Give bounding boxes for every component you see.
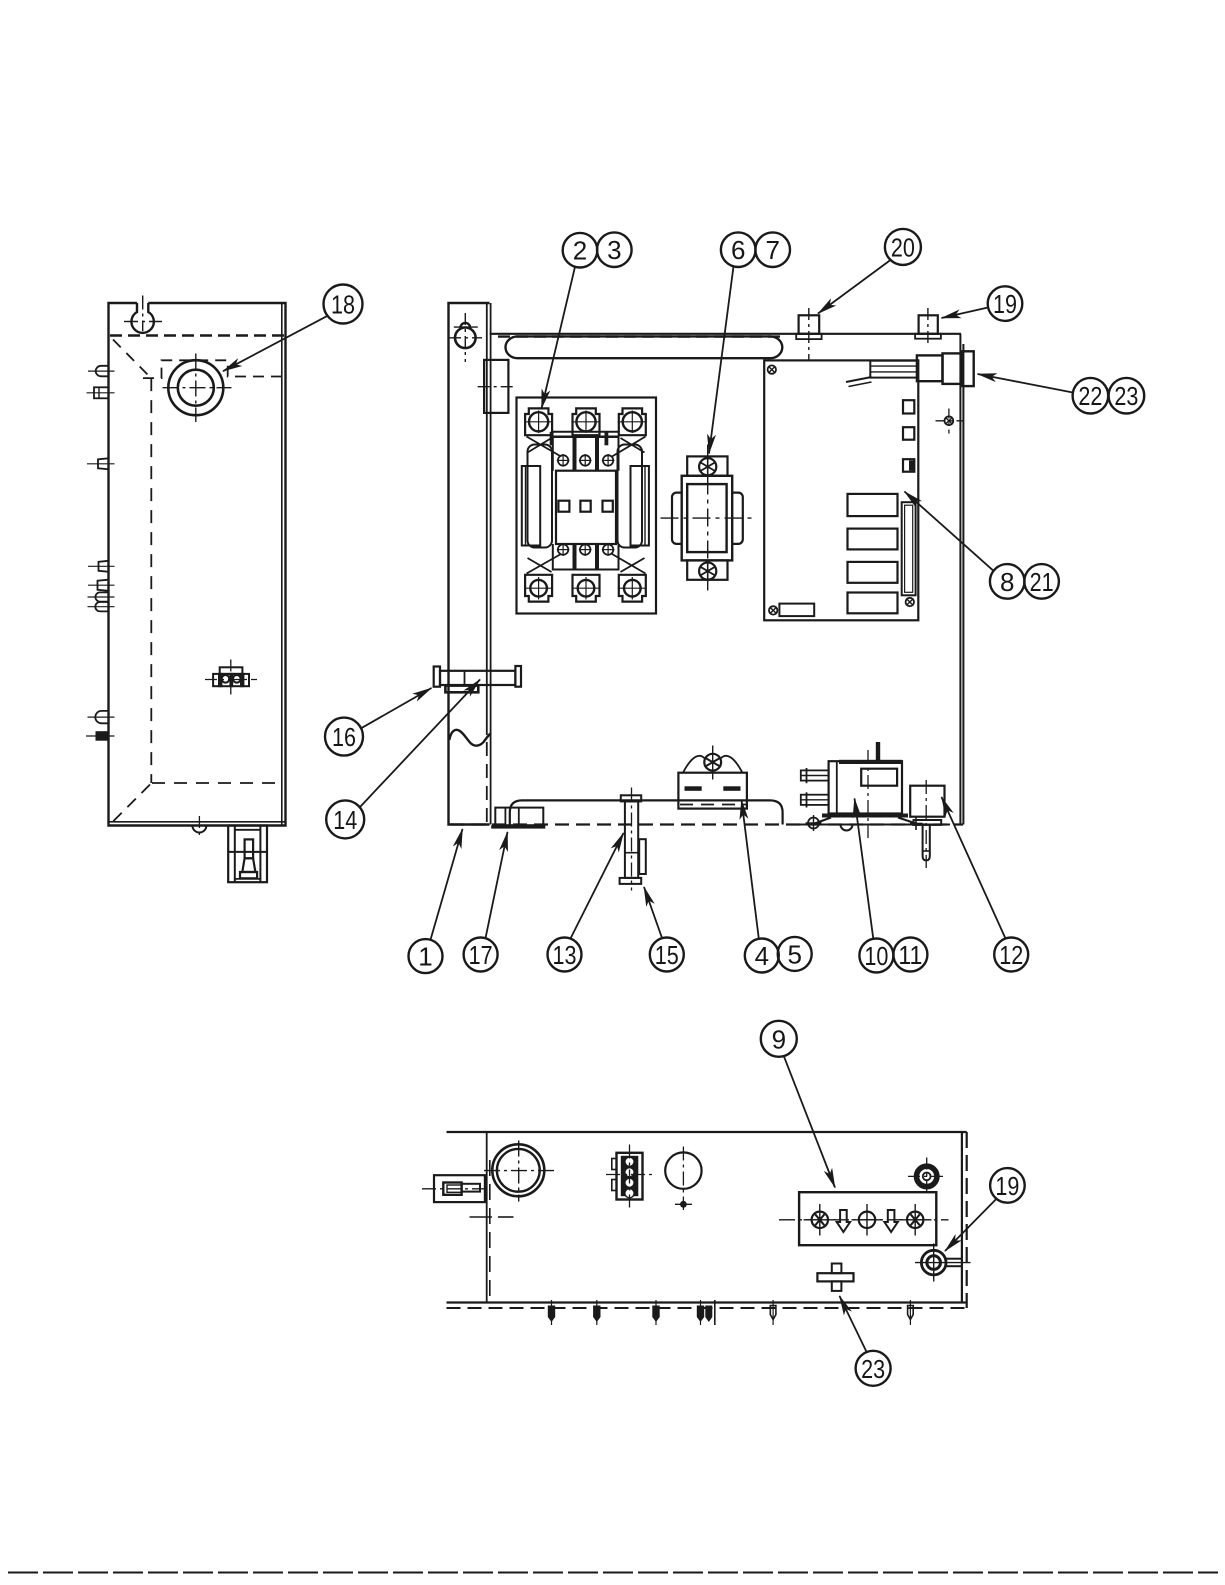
callout 2 [563, 233, 598, 268]
big hole circles [492, 1144, 544, 1196]
svg-text:15: 15 [655, 940, 679, 970]
transformer top tab [687, 456, 727, 475]
pcb relay 4 [848, 593, 898, 614]
bracket 9 [799, 1192, 936, 1245]
callout 9 [761, 1021, 797, 1057]
panel bottom hidden dashed [450, 823, 963, 825]
top diagonal wires [527, 437, 562, 457]
bracket 9 screw 3 [907, 1212, 923, 1228]
callout 12 [994, 938, 1028, 972]
callout 16 [325, 718, 363, 756]
box 17 [495, 808, 543, 826]
callout 11 [893, 938, 927, 972]
svg-text:19: 19 [993, 289, 1017, 319]
callout 18 [324, 285, 363, 324]
bottom terminal pad 2 [573, 575, 600, 602]
svg-text:10: 10 [864, 941, 888, 971]
bottom view right edges [961, 1132, 963, 1303]
pcb relay 2 [848, 529, 898, 550]
svg-text:17: 17 [469, 940, 493, 970]
callout 20 [885, 229, 921, 265]
svg-text:4: 4 [755, 941, 769, 971]
bottom view top edge [447, 1131, 967, 1133]
terminal T3 pin [98, 458, 109, 469]
callout 21 [1024, 564, 1059, 599]
svg-text:2: 2 [573, 236, 587, 266]
tab 19 [919, 315, 938, 334]
svg-text:8: 8 [1000, 567, 1014, 597]
component 12 [910, 786, 944, 817]
4-pin connector [617, 1153, 643, 1200]
connector large block [943, 353, 962, 384]
svg-text:22: 22 [1078, 381, 1102, 411]
connector mid block [917, 355, 943, 381]
svg-text:14: 14 [333, 805, 357, 835]
tab 20 [799, 315, 820, 334]
bottom edge terminal m5 outline [772, 1300, 774, 1325]
svg-text:7: 7 [765, 235, 779, 265]
svg-text:9: 9 [772, 1024, 786, 1054]
callout 13 [548, 938, 582, 972]
component 23 bottom [817, 1273, 853, 1281]
svg-text:12: 12 [999, 940, 1023, 970]
callout 23 bottom [856, 1351, 891, 1386]
pcb square 2 [903, 427, 914, 440]
relay prongs [801, 770, 829, 780]
svg-text:18: 18 [331, 290, 355, 320]
terminal T2 pin [94, 387, 109, 398]
bottom terminal pad 3 [619, 575, 646, 602]
terminal T5 pin [98, 580, 109, 591]
terminal block 4/5 [678, 773, 747, 809]
SECTION-B [517, 398, 657, 614]
bottom bump on enclosure [192, 826, 206, 833]
transformer centerlines [661, 517, 755, 519]
bracket 9 screw 1 [812, 1212, 828, 1228]
callout 3 [597, 232, 632, 267]
bracket 9 center screw [859, 1212, 875, 1228]
SECTION-D [223, 229, 1144, 973]
svg-text:11: 11 [898, 940, 922, 970]
hole 18 centerlines [195, 354, 197, 423]
svg-text:6: 6 [731, 235, 745, 265]
transformer bottom tab [687, 560, 727, 579]
terminal T4 pin [99, 561, 109, 572]
hole 18 outer circle [168, 360, 223, 415]
hinge block on flange [484, 360, 508, 413]
svg-text:23: 23 [1114, 381, 1138, 411]
wire tail [846, 377, 872, 382]
relay top pin [876, 742, 880, 761]
middle hole circle [665, 1152, 701, 1188]
bottom edge terminal m6 outline [909, 1300, 911, 1325]
terminal T6 double horn [95, 592, 108, 601]
bottom view bottom edges [447, 1301, 967, 1303]
top right thick screw [917, 1166, 937, 1186]
coil tab column 1 [553, 437, 574, 471]
svg-text:20: 20 [891, 232, 915, 262]
callout 22 [1073, 378, 1109, 414]
left bracket standoff [434, 1175, 485, 1202]
small bars between top pads [552, 431, 619, 433]
svg-text:16: 16 [332, 722, 356, 752]
transformer right ear [732, 493, 743, 544]
svg-text:3: 3 [607, 235, 621, 265]
pcb screw bottom-left [769, 606, 777, 614]
hidden top dashed line [110, 334, 284, 336]
callout 23 top [1109, 378, 1145, 414]
transformer bottom screw [699, 563, 716, 580]
enclosure side-view body [109, 303, 286, 826]
pcb screw top-left [768, 365, 776, 373]
callout 5 [778, 937, 812, 971]
enclosure inner right edge [281, 303, 283, 826]
pcb screw bottom-right [906, 598, 914, 606]
notch step dashes around hole [143, 360, 282, 378]
callout 10 [859, 939, 893, 973]
flange break wavy line [449, 730, 490, 746]
pcb square 1 [903, 400, 914, 413]
bottom edge terminal m1 [551, 1300, 553, 1325]
bottom edge terminal m4 double [700, 1300, 702, 1325]
callout 1 [409, 939, 443, 973]
flange left strip [449, 303, 490, 825]
terminal T7 horn [95, 711, 108, 723]
bottom terminal pad 1 [525, 575, 552, 602]
pcb relay 3 [848, 562, 898, 583]
wire plug 22/23 body [870, 361, 917, 378]
bottom page rule [8, 1572, 1218, 1574]
keyhole slot top [131, 303, 153, 333]
SECTION-A [434, 303, 974, 825]
bottom edge terminal m2 [596, 1300, 598, 1325]
circuit board outline [764, 360, 918, 620]
pcb square 3 [903, 459, 914, 472]
panel right edge [959, 334, 961, 825]
SECTION-C [491, 742, 944, 891]
standoff 16/14 on flange [434, 667, 440, 687]
svg-text:5: 5 [787, 939, 801, 969]
bottom edge terminal m3 [655, 1300, 657, 1325]
bottom corner diagonal dash [113, 785, 150, 822]
hidden vertical dashed line [150, 378, 152, 783]
transformer top screw [699, 458, 716, 475]
svg-text:23: 23 [861, 1354, 885, 1384]
callout 19 bottom [990, 1168, 1025, 1203]
panel top hidden dashed [498, 335, 781, 337]
right coil tower [618, 445, 643, 548]
hole 18 inner circle [178, 370, 214, 406]
bracket 9 arrow 1 [837, 1210, 850, 1232]
callout 8 [990, 564, 1025, 599]
terminal T1 horn [96, 366, 109, 377]
relay base [822, 814, 908, 818]
transformer left ear [672, 493, 682, 544]
hidden bottom dashed line [152, 782, 282, 784]
svg-text:19: 19 [995, 1171, 1019, 1201]
panel top edge [490, 333, 961, 335]
bracket 9 arrow 2 [884, 1210, 897, 1232]
bottom view left fold lines [486, 1132, 488, 1303]
enclosure inner bottom edge [109, 821, 286, 823]
panel screw right [945, 416, 954, 425]
top terminal pad 2 [573, 408, 600, 435]
svg-text:21: 21 [1030, 567, 1054, 597]
contactor central body [556, 471, 616, 544]
mid connector on enclosure [213, 674, 249, 686]
centerline marks below [470, 1216, 493, 1218]
callout 17 [464, 938, 498, 972]
left coil tower [528, 445, 553, 548]
keyhole centerlines [142, 296, 144, 332]
contactor outer box [517, 398, 657, 614]
svg-text:1: 1 [418, 942, 432, 972]
coil tab column 2 [576, 437, 597, 471]
flange keyhole screw [455, 328, 476, 349]
wire duct top [506, 336, 783, 358]
svg-text:13: 13 [553, 940, 577, 970]
wire duct bottom [510, 800, 783, 824]
corner diagonal dashes [113, 340, 150, 377]
bottom diagonal wires [527, 554, 562, 574]
top terminal pad 1 [525, 408, 552, 435]
transformer body [682, 476, 733, 561]
callout 19 top [988, 286, 1023, 321]
callout 6 [721, 232, 756, 267]
pcb edge connector strip [902, 502, 916, 595]
callout 15 [650, 938, 684, 972]
pcb relay 1 [848, 494, 898, 516]
connector outer block [962, 351, 973, 386]
callout 4 [745, 939, 779, 973]
screw 19 bottom [921, 1250, 946, 1275]
standoff 13 [621, 795, 641, 801]
callout 14 [326, 800, 364, 838]
callout 7 [755, 232, 790, 267]
top terminal pad 3 [619, 408, 646, 435]
coil tab column 3 [598, 437, 619, 471]
bottom plug connector [228, 826, 267, 883]
terminal T8 filled pin [96, 731, 109, 741]
pcb bottom-left rect [779, 604, 814, 617]
relay 10/11 [829, 761, 902, 813]
